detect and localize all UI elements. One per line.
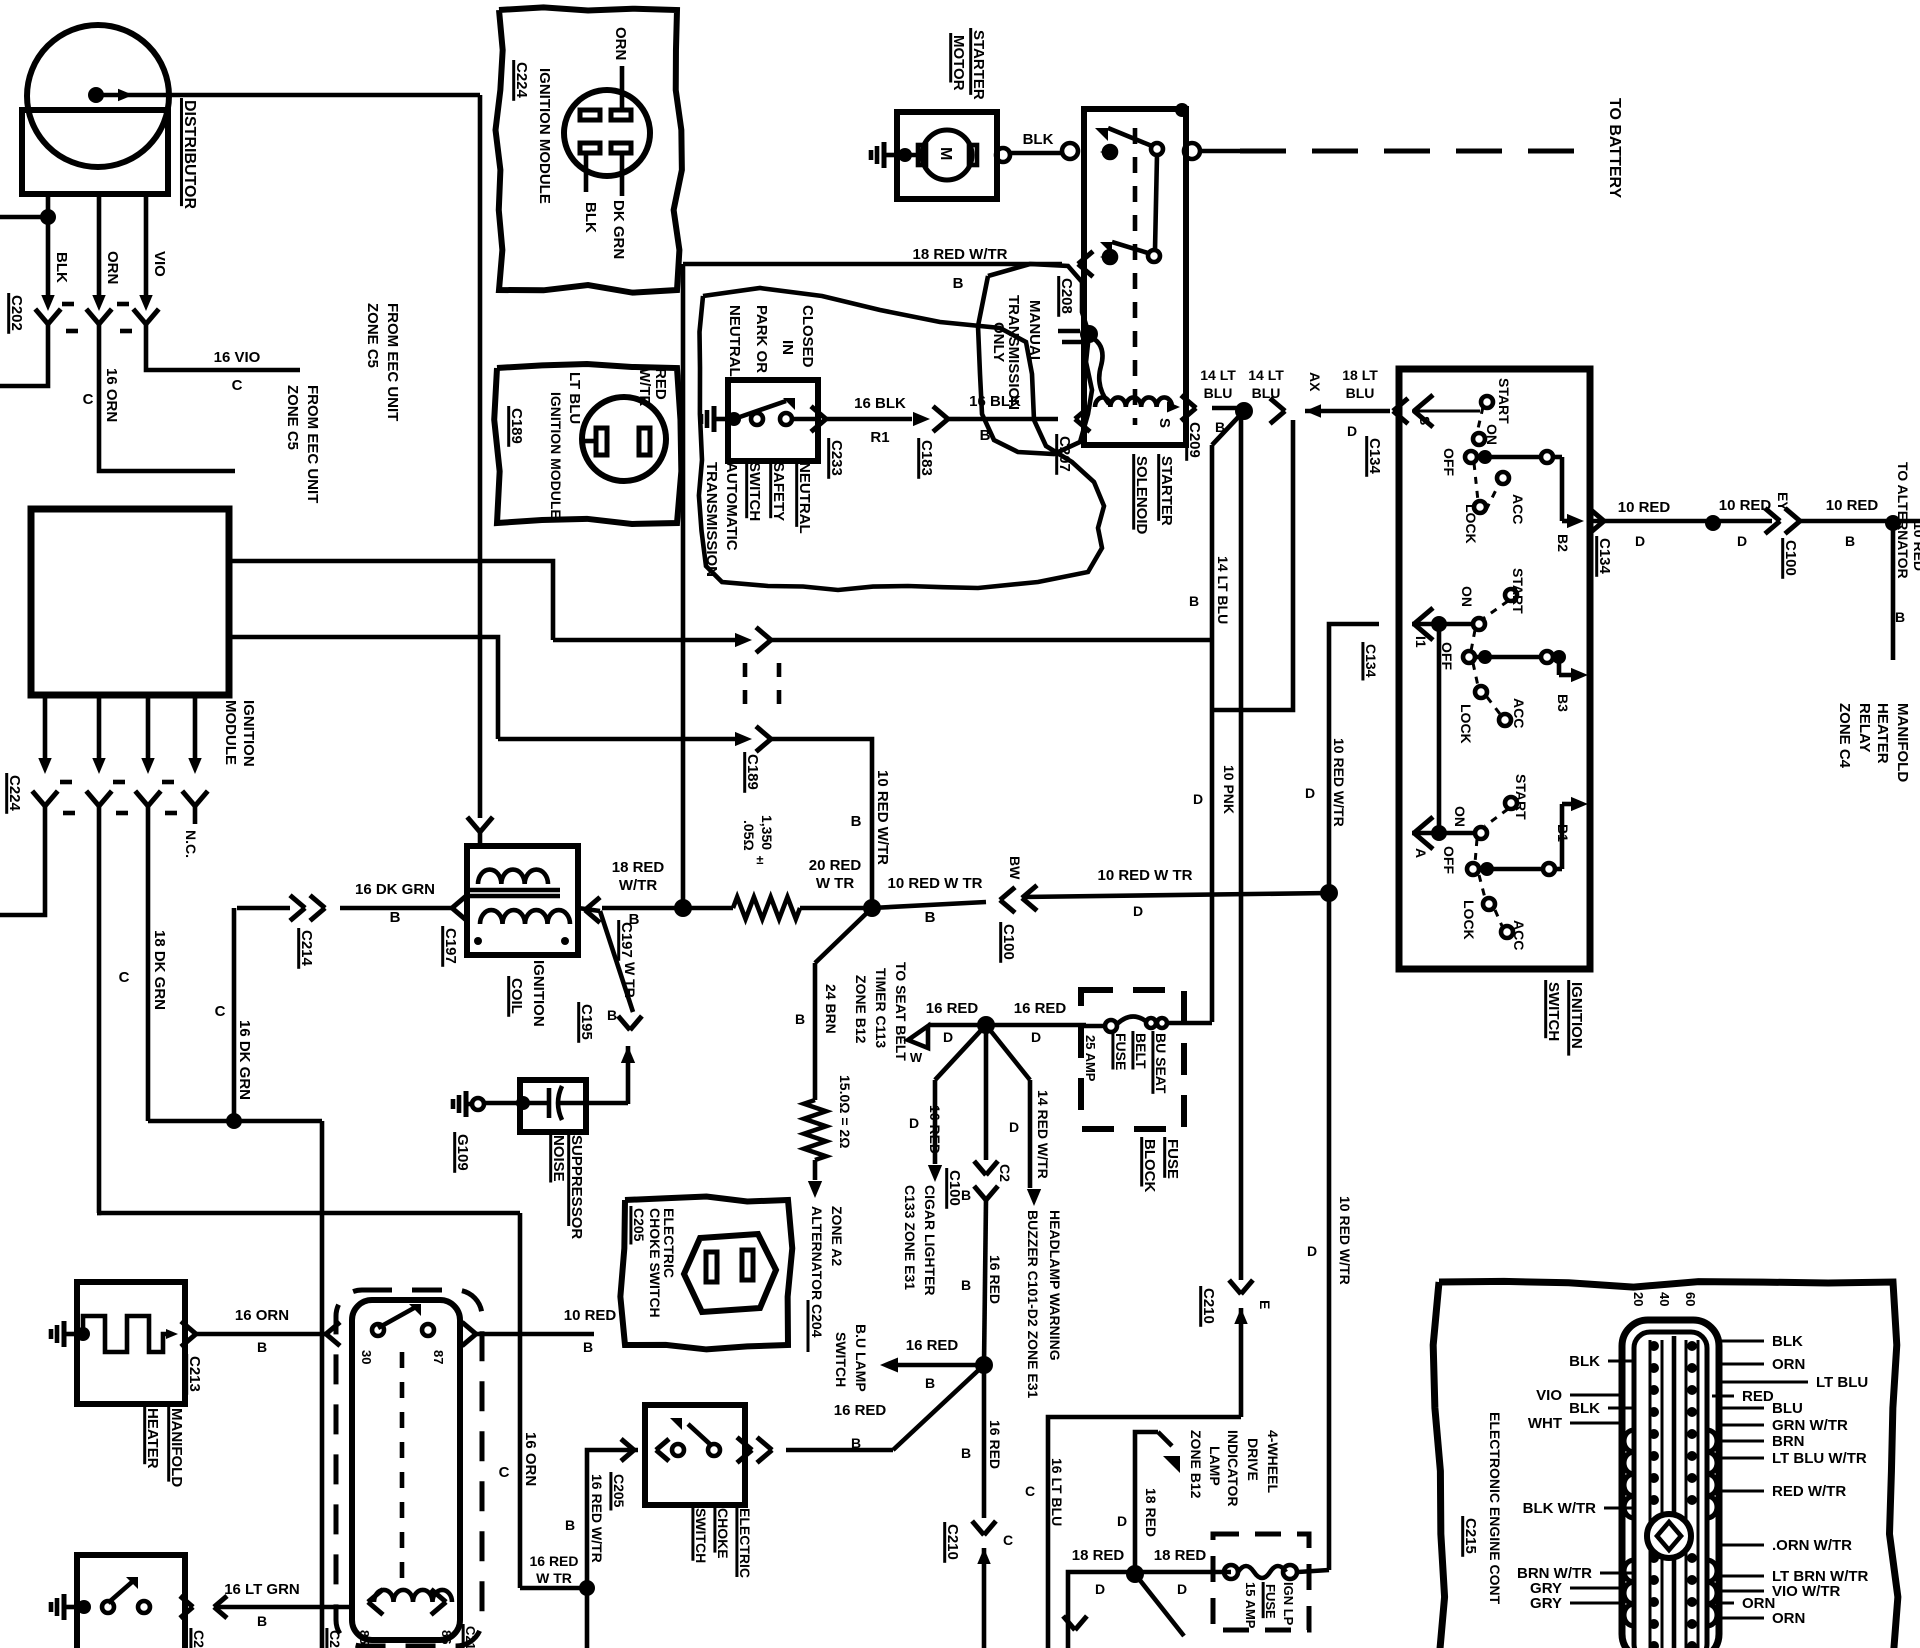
connector C197 coil left [452,895,467,908]
svg-text:C213: C213 [186,1356,203,1392]
module pin wires with arrows [43,695,48,758]
wire module pin2 16 ORN [97,824,99,1213]
svg-text:C210: C210 [944,1524,961,1560]
deck1 wiper line to B2 [1478,450,1492,464]
solenoid lower contact [1100,251,1114,263]
svg-text:TO BATTERY: TO BATTERY [1606,98,1623,198]
svg-text:LOCK: LOCK [1461,900,1477,940]
svg-text:MANIFOLD: MANIFOLD [1894,703,1911,782]
svg-text:D: D [1193,791,1203,807]
wire DK GRN pin [620,153,625,196]
noise suppressor C1 [464,1091,469,1117]
svg-text:SWITCH: SWITCH [693,1508,709,1563]
relay contacts 30/87 [372,1324,384,1336]
svg-text:D: D [1095,1581,1105,1597]
svg-text:MANIFOLD: MANIFOLD [168,1408,185,1487]
wire 16 VIO from C202 [146,342,300,370]
svg-text:D: D [1307,1243,1317,1259]
svg-text:16 LT BLU: 16 LT BLU [1049,1458,1065,1526]
svg-text:10 RED W/TR: 10 RED W/TR [1337,1196,1353,1285]
svg-text:N.C.: N.C. [183,830,199,858]
wire module pin1 to page-left [0,824,45,915]
svg-text:18 RED: 18 RED [612,859,665,876]
wire 16 RED down to C210 [982,1365,987,1440]
relay solid box [352,1300,460,1640]
wire 18 RED W/TR from coil to junction [602,906,683,911]
svg-text:B: B [851,1435,861,1451]
svg-text:BRN: BRN [1772,1433,1805,1450]
heater output chevron [181,1321,196,1334]
svg-text:C205: C205 [611,1474,627,1508]
svg-text:C202: C202 [8,295,25,331]
svg-text:DRIVE: DRIVE [1245,1438,1261,1481]
svg-text:AX: AX [1307,372,1323,392]
svg-text:±: ± [756,852,763,867]
svg-text:C134: C134 [1366,438,1383,475]
wire 16 RED to choke switch [893,1365,984,1450]
coil right terminal and C197 [585,897,600,910]
ground at manifold heater [62,1321,67,1347]
svg-text:ACC: ACC [1510,494,1526,524]
svg-text:NEUTRAL: NEUTRAL [796,462,813,534]
svg-text:SAFETY: SAFETY [770,462,787,521]
svg-text:C: C [232,377,243,394]
svg-text:C224: C224 [513,62,530,99]
svg-text:C210: C210 [1200,1288,1217,1324]
svg-text:INDICATOR: INDICATOR [1225,1430,1241,1506]
svg-text:14 RED W/TR: 14 RED W/TR [1035,1090,1051,1179]
svg-text:ALTERNATOR C204: ALTERNATOR C204 [809,1206,825,1338]
neutral safety switch S1 box [728,380,818,461]
svg-text:LT BLU: LT BLU [566,372,583,424]
svg-text:15 AMP: 15 AMP [1243,1582,1258,1629]
starter motor B1 box [897,112,997,199]
wire 18 RED bottom [1068,1572,1231,1648]
svg-text:BLK: BLK [1023,131,1054,148]
svg-text:M: M [937,147,954,160]
wire 10 RED from B2 [1590,519,1706,524]
svg-text:.05Ω: .05Ω [741,820,757,851]
svg-text:ORN: ORN [1742,1595,1775,1612]
svg-text:16 RED W/TR: 16 RED W/TR [589,1474,605,1563]
seat belt timer arrow W [908,1026,928,1048]
svg-text:C205: C205 [631,1208,647,1242]
svg-text:C233: C233 [828,440,845,476]
connector C189 inline halves [756,627,771,640]
svg-text:OFF: OFF [1441,448,1457,476]
svg-text:B: B [1845,533,1855,549]
svg-text:C215: C215 [1462,1518,1479,1554]
wire to alternator drop [1891,523,1896,660]
svg-text:HEATER: HEATER [144,1408,161,1469]
svg-text:ZONE B12: ZONE B12 [853,975,869,1044]
svg-text:ACC: ACC [1511,920,1527,950]
fuse block dashed box [1081,990,1184,1129]
svg-text:ZONE C5: ZONE C5 [284,385,301,450]
svg-text:MODULE: MODULE [222,700,239,765]
svg-text:10 RED W/TR: 10 RED W/TR [874,770,891,865]
svg-text:B: B [851,813,862,830]
svg-text:C133 ZONE E31: C133 ZONE E31 [902,1185,918,1290]
svg-text:ORN: ORN [1772,1356,1805,1373]
svg-text:C189: C189 [508,408,525,444]
svg-text:16 RED: 16 RED [906,1337,959,1354]
wire from distributor box to page-left at y217 [0,215,48,220]
svg-text:C224: C224 [6,775,23,812]
wire 16 DK GRN to coil [340,906,456,911]
svg-text:85: 85 [357,1630,372,1644]
svg-text:C211: C211 [463,1626,478,1648]
svg-text:G109: G109 [454,1134,471,1171]
svg-text:BLU: BLU [1204,385,1233,401]
NSS blade [734,401,786,419]
svg-text:D: D [1635,533,1645,549]
svg-text:20: 20 [1631,1292,1646,1306]
svg-text:SWITCH: SWITCH [833,1332,849,1387]
svg-text:IGNITION: IGNITION [1568,982,1585,1049]
svg-text:40: 40 [1657,1292,1672,1306]
wire 16 ORN from C202 [99,342,235,471]
choke switch contacts [672,1444,684,1456]
wire 16 BLK R1 [811,406,826,419]
svg-text:AUTOMATIC: AUTOMATIC [723,462,740,551]
EEC pin dots [1649,1341,1659,1351]
solenoid left terminal circle [1062,143,1078,159]
svg-text:16 ORN: 16 ORN [522,1432,539,1486]
svg-text:C: C [215,1003,226,1020]
svg-text:C134: C134 [1596,538,1613,575]
hex connector [684,1234,776,1312]
connector C202 [62,302,74,307]
svg-text:CLOSED: CLOSED [799,305,816,368]
wire pin2 16 ORN run [97,1211,520,1216]
manifold heater R2 box [77,1282,185,1404]
manual transmission blob outline [978,264,1092,454]
svg-text:B: B [1189,593,1199,609]
svg-text:EY: EY [1775,492,1791,511]
connector C209 and S-terminal wire [1181,395,1196,408]
wire cigar lighter branch [935,1025,986,1080]
svg-text:B: B [961,1277,971,1293]
svg-text:CHOKE SWITCH: CHOKE SWITCH [647,1208,663,1318]
svg-text:B: B [257,1339,267,1355]
svg-text:A: A [1413,848,1429,858]
svg-text:IGNITION MODULE: IGNITION MODULE [548,392,564,519]
svg-text:VIO W/TR: VIO W/TR [1772,1583,1840,1600]
svg-text:16 RED: 16 RED [927,1105,943,1154]
svg-text:C197: C197 [442,928,459,964]
svg-text:PARK OR: PARK OR [753,305,770,373]
4-wheel drive indicator branch [1135,1432,1158,1574]
svg-text:20 RED: 20 RED [809,857,862,874]
wire to C189 connector lower [498,737,736,742]
svg-text:W/TR: W/TR [619,877,657,894]
wire headlamp buzzer branch [986,1025,1030,1080]
connector C100 EY [1765,508,1780,521]
svg-text:B: B [961,1445,971,1461]
svg-text:FUSE: FUSE [1164,1139,1181,1179]
svg-text:C: C [1025,1483,1035,1499]
svg-text:GRN W/TR: GRN W/TR [1772,1417,1848,1434]
svg-text:ON: ON [1484,424,1500,445]
motor M symbol [905,153,922,158]
svg-text:C214: C214 [298,930,315,967]
wire AX riser [1214,420,1293,710]
svg-text:BLK: BLK [1772,1333,1803,1350]
svg-text:86: 86 [439,1630,454,1644]
svg-text:BLOCK: BLOCK [1141,1139,1158,1192]
C195 lower arrow from noise suppressor [621,1046,635,1063]
svg-text:16 DK GRN: 16 DK GRN [355,881,435,898]
EEC connector body [1622,1320,1719,1648]
svg-text:D: D [1177,1581,1187,1597]
connector C208 chevron into solenoid [1078,251,1093,264]
wire 16 BLK to solenoid [960,417,1058,422]
svg-text:NEUTRAL: NEUTRAL [726,305,743,377]
svg-text:16 BLK: 16 BLK [969,393,1021,410]
wire pin3 run to relay column [148,1119,322,1124]
svg-text:C134: C134 [1363,644,1379,678]
ignition switch box S2 [1399,369,1590,969]
svg-text:14 LT BLU: 14 LT BLU [1215,556,1231,624]
manifold heater relay K1 dashed outline [336,1290,482,1646]
wire module output lower [229,637,498,739]
deck1 contacts [1481,396,1493,408]
svg-text:FROM EEC UNIT: FROM EEC UNIT [384,303,401,421]
deck2 contacts [1414,608,1433,624]
svg-text:C189: C189 [744,754,761,790]
svg-text:C: C [119,969,130,986]
svg-text:TRANSMISSION: TRANSMISSION [703,462,720,577]
wire 10 PNK to C210 E [1229,1280,1241,1294]
svg-text:ORN: ORN [104,251,121,284]
svg-text:ZONE B12: ZONE B12 [1188,1430,1204,1499]
svg-text:BLK: BLK [1569,1400,1600,1417]
svg-text:C208: C208 [1058,278,1075,314]
wire BLK to page-left [0,342,48,386]
svg-text:SWITCH: SWITCH [1545,982,1562,1041]
svg-text:10 RED W TR: 10 RED W TR [887,875,982,892]
svg-text:RED W/TR: RED W/TR [1772,1483,1846,1500]
wire 16 DK GRN riser [237,906,290,911]
svg-text:RELAY: RELAY [1856,703,1873,752]
svg-text:SUPPRESSOR: SUPPRESSOR [568,1135,585,1239]
svg-text:RED: RED [652,368,669,400]
svg-text:CIGAR LIGHTER: CIGAR LIGHTER [922,1185,938,1295]
svg-text:87: 87 [431,1350,446,1364]
svg-text:24 BRN: 24 BRN [823,984,839,1034]
svg-text:C183: C183 [918,440,935,476]
svg-text:C2: C2 [997,1164,1013,1182]
svg-text:FROM EEC UNIT: FROM EEC UNIT [304,385,321,503]
svg-text:BUZZER C101-D2 ZONE E31: BUZZER C101-D2 ZONE E31 [1025,1210,1041,1398]
svg-text:OFF: OFF [1439,642,1455,670]
distributor D1 [27,25,169,167]
svg-text:VIO: VIO [151,251,168,277]
buzzer seat fuse [1081,1024,1106,1029]
svg-text:TO SEAT BELT: TO SEAT BELT [893,962,909,1061]
svg-text:16 VIO: 16 VIO [214,349,261,366]
wire VIO from distributor [144,194,149,295]
svg-text:ON: ON [1452,806,1468,827]
svg-text:IGNITION: IGNITION [240,700,257,767]
svg-text:W TR: W TR [622,962,638,998]
svg-text:ORN: ORN [612,27,629,60]
wire 10 RED W/TR into fuse [1298,1570,1329,1572]
svg-text:1,350: 1,350 [759,815,775,850]
svg-text:C21: C21 [327,1630,343,1648]
svg-text:B: B [390,909,401,926]
svg-text:C: C [83,391,94,408]
svg-text:FUSE: FUSE [1263,1584,1278,1619]
EEC side scallops [1624,1430,1634,1518]
ground at starter motor [882,142,887,168]
svg-text:COIL: COIL [508,978,525,1014]
heater element [83,1316,172,1352]
connector circle C224 [564,90,650,176]
svg-text:ZONE C4: ZONE C4 [1836,703,1853,769]
svg-text:16 RED: 16 RED [529,1553,578,1569]
wire dashed TO BATTERY [1200,149,1240,154]
svg-text:18 RED: 18 RED [1072,1547,1125,1564]
svg-text:TO ALTERNATOR: TO ALTERNATOR [1895,462,1911,579]
wire upper C189 run to ignition switch area [790,638,1212,643]
wire fuse to 14 LT BLU riser [1184,1021,1212,1026]
svg-text:B: B [795,1011,805,1027]
svg-text:B: B [925,1375,935,1391]
svg-text:C21: C21 [191,1630,207,1648]
wire 16 RED to fuse block [928,1023,1086,1028]
svg-text:.ORN W/TR: .ORN W/TR [1772,1537,1852,1554]
svg-text:D: D [1117,1513,1127,1529]
svg-text:START: START [1510,568,1526,614]
svg-text:W TR: W TR [816,875,854,892]
svg-text:B: B [1895,609,1905,625]
svg-text:C: C [499,1464,510,1481]
svg-text:W: W [910,1050,923,1065]
svg-text:18 LT: 18 LT [1342,367,1378,383]
svg-text:18 RED W/TR: 18 RED W/TR [912,246,1007,263]
svg-text:10 RED: 10 RED [564,1307,617,1324]
svg-text:B: B [607,1007,617,1023]
ignition switch pin S [1414,395,1433,411]
wire 16 LT GRN [214,1605,352,1610]
solenoid coil S winding [1089,336,1109,404]
connector C224 lower halves [32,791,45,806]
relay inner dashed line [400,1352,405,1590]
svg-text:18 RED: 18 RED [1154,1547,1207,1564]
svg-text:I1: I1 [1413,636,1429,648]
relay output 10 RED [462,1322,476,1334]
svg-text:BLU: BLU [1772,1400,1803,1417]
svg-text:NOISE: NOISE [550,1135,567,1182]
svg-text:BLU: BLU [1346,385,1375,401]
svg-text:D: D [1737,533,1747,549]
svg-text:C100: C100 [1782,540,1799,576]
relay coil [368,1589,383,1602]
ignition switch I1 riser 10 RED W/TR [1329,624,1379,1570]
svg-text:16 RED: 16 RED [987,1255,1003,1304]
svg-text:SWITCH: SWITCH [746,462,763,521]
svg-text:D: D [1347,423,1357,439]
EEC center target [1647,1514,1691,1558]
wire module output upper [229,561,553,640]
deck2 bus to B3 [1557,657,1562,675]
svg-text:LAMP: LAMP [1207,1446,1223,1486]
svg-text:B2: B2 [1555,534,1571,552]
wire BLK pin [584,153,589,192]
svg-text:ELECTRIC: ELECTRIC [737,1508,753,1578]
connector C183 [933,406,948,419]
svg-text:B1: B1 [1555,824,1571,842]
svg-text:C195: C195 [578,1004,595,1040]
svg-text:R1: R1 [870,429,889,446]
svg-text:VIO: VIO [1536,1387,1562,1404]
wire ORN pin [620,66,625,110]
wire BLK from distributor [46,194,51,295]
electric choke switch connector box C205 [620,1197,792,1350]
ignition module connector C189 box [494,364,681,524]
svg-text:BW: BW [1007,856,1023,880]
svg-text:BU SEAT: BU SEAT [1153,1033,1169,1094]
ign lp fuse dashed box [1213,1534,1309,1630]
svg-text:10 RED: 10 RED [1719,497,1772,514]
svg-text:ORN: ORN [1772,1610,1805,1627]
svg-text:ACC: ACC [1511,698,1527,728]
automatic transmission blob outline [699,288,1104,590]
svg-text:16 RED: 16 RED [834,1402,887,1419]
svg-text:RED: RED [1742,1388,1774,1405]
svg-text:B: B [565,1517,575,1533]
coil secondary diagonal to C195 [600,911,633,1012]
svg-text:10 PNK: 10 PNK [1221,765,1237,814]
svg-text:BLU: BLU [1252,385,1281,401]
svg-text:15.0Ω = 2Ω: 15.0Ω = 2Ω [837,1075,853,1148]
svg-text:IN: IN [779,340,796,355]
ignition module connector C224 box [496,7,682,292]
wire distributor to ignition coil vertical [478,95,483,818]
svg-text:LOCK: LOCK [1458,704,1474,744]
svg-text:16 BLK: 16 BLK [854,395,906,412]
svg-text:ELECTRONIC ENGINE CONT: ELECTRONIC ENGINE CONT [1487,1412,1503,1605]
svg-text:STARTER: STARTER [970,30,987,100]
svg-text:DISTRIBUTOR: DISTRIBUTOR [181,100,198,209]
svg-text:16 RED: 16 RED [926,1000,979,1017]
relay input chevron [326,1322,340,1334]
svg-text:IGN LP: IGN LP [1281,1582,1296,1626]
ignition coil T1 [467,817,480,832]
ground at NSS [712,406,717,432]
svg-text:B: B [980,427,991,444]
svg-text:18 DK GRN: 18 DK GRN [151,930,168,1010]
EEC box outline [1433,1281,1898,1648]
svg-text:16 LT GRN: 16 LT GRN [224,1581,300,1598]
EEC inner columns [1649,1340,1652,1648]
svg-text:W TR: W TR [536,1570,572,1586]
svg-text:TIMER C113: TIMER C113 [873,968,889,1048]
svg-text:STARTER: STARTER [1158,456,1175,526]
alternator branch 24 BRN resistor [815,908,872,963]
svg-text:B: B [257,1613,267,1629]
svg-text:START: START [1513,774,1529,820]
ballast resistor 1350 ohm [683,906,733,911]
svg-text:14 LT: 14 LT [1248,367,1284,383]
wire 18 RED W/TR riser [681,264,686,908]
svg-text:14 LT: 14 LT [1200,367,1236,383]
solenoid top right corner dot [1175,103,1189,117]
svg-text:B: B [961,1187,971,1203]
svg-text:LT BLU: LT BLU [1816,1374,1868,1391]
